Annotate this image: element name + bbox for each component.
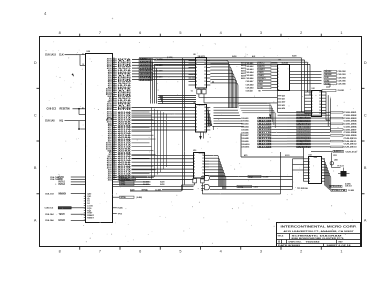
- svg-text:CU8-4B3: CU8-4B3: [241, 123, 249, 126]
- svg-text:CU8-4B6: CU8-4B6: [241, 131, 249, 134]
- svg-text:8: 8: [113, 122, 114, 124]
- svg-text:8: 8: [196, 81, 197, 83]
- svg-text:IORC/: IORC/: [258, 72, 264, 74]
- svg-text:INTA2: INTA2: [59, 183, 66, 186]
- svg-text:CU8-4B2: CU8-4B2: [241, 120, 249, 123]
- svg-text:RESET: RESET: [87, 217, 94, 219]
- driver U33 pins: [304, 158, 326, 182]
- svg-text:DATE 8/30/83: DATE 8/30/83: [278, 244, 301, 247]
- svg-text:13: 13: [113, 132, 115, 134]
- svg-text:B: B: [278, 241, 280, 244]
- cpu U30 left pin stubs lower: [84, 194, 86, 220]
- svg-text:12: 12: [202, 172, 204, 174]
- latch U9 74LS373 body: [193, 102, 206, 132]
- right column lower refs and signals: [241, 117, 287, 149]
- svg-text:9: 9: [113, 97, 114, 99]
- svg-text:DRQ0: DRQ0: [297, 112, 310, 114]
- svg-text:CR1: CR1: [333, 155, 337, 157]
- svg-text:CU8-1A2: CU8-1A2: [45, 213, 55, 216]
- svg-text:16: 16: [319, 98, 321, 100]
- svg-text:AP0: AP0: [244, 154, 247, 157]
- latch U9 pins: [196, 107, 210, 131]
- bottom label boxes: [237, 175, 268, 188]
- svg-text:B: B: [364, 166, 367, 170]
- svg-text:RESET86: RESET86: [60, 109, 71, 111]
- svg-text:32: 32: [113, 169, 115, 171]
- svg-text:AD4B: AD4B: [258, 146, 273, 149]
- svg-text:3: 3: [260, 250, 262, 254]
- svg-text:29: 29: [113, 60, 115, 62]
- U33 left feed vertical: [303, 148, 305, 182]
- svg-text:26: 26: [113, 65, 115, 67]
- latch U8 pins: [189, 60, 211, 86]
- svg-text:9: 9: [113, 124, 114, 126]
- transceiver U10 output bundle: [209, 155, 226, 189]
- svg-text:D: D: [364, 61, 367, 65]
- svg-text:33: 33: [113, 171, 115, 173]
- svg-text:74LS245: 74LS245: [198, 151, 205, 154]
- svg-text:7: 7: [196, 123, 197, 125]
- svg-text:9: 9: [196, 130, 197, 132]
- svg-text:CU8-4B9: CU8-4B9: [241, 140, 249, 143]
- svg-text:CU8-4A4: CU8-4A4: [246, 71, 255, 74]
- svg-text:12: 12: [204, 85, 206, 87]
- svg-text:CU8-4A3: CU8-4A3: [246, 68, 254, 71]
- title block outline: [277, 223, 361, 247]
- buffer gates below U8: [191, 81, 214, 103]
- svg-text:22: 22: [113, 73, 115, 75]
- svg-text:INTR(A): INTR(A): [142, 188, 149, 191]
- U33 output curve bundle: [322, 159, 331, 191]
- svg-text:MRDC: MRDC: [140, 59, 153, 61]
- cpu U30 8086 body: [86, 51, 113, 223]
- svg-text:18: 18: [319, 92, 321, 94]
- grid ticks top edge: [80, 34, 322, 37]
- vertical bus left of latches: [151, 60, 157, 104]
- svg-text:3: 3: [260, 31, 262, 35]
- svg-text:3: 3: [312, 95, 313, 97]
- buffer U32 pins: [305, 92, 327, 115]
- svg-text:INTA/: INTA/: [258, 80, 263, 83]
- grid row letters right: [364, 61, 367, 223]
- svg-text:MEMW/: MEMW/: [325, 74, 332, 76]
- svg-text:INTERCONTINENTAL MICRO CORP.: INTERCONTINENTAL MICRO CORP.: [281, 225, 357, 229]
- wires below U10: [130, 183, 281, 194]
- svg-text:2: 2: [196, 107, 197, 109]
- svg-text:18: 18: [202, 155, 204, 157]
- svg-text:SCHEMATIC DIAGRAM: SCHEMATIC DIAGRAM: [292, 234, 342, 237]
- t2 rows below bus: [158, 96, 196, 104]
- svg-text:U32: U32: [312, 88, 315, 90]
- svg-text:TP1 RN103A: TP1 RN103A: [297, 187, 308, 190]
- svg-text:4: 4: [220, 250, 222, 254]
- cpu U30 right pin labels lower: [118, 111, 133, 182]
- svg-text:25: 25: [113, 155, 115, 157]
- svg-text:21: 21: [82, 108, 84, 110]
- svg-text:IOWC/: IOWC/: [258, 75, 264, 77]
- u9 right bundle verticals: [208, 108, 213, 130]
- svg-text:REV: REV: [339, 241, 344, 243]
- svg-text:3: 3: [196, 110, 197, 112]
- svg-text:INTRA: INTRA: [238, 185, 244, 188]
- svg-text:CU8-1B6: CU8-1B6: [338, 83, 346, 85]
- svg-text:15: 15: [113, 136, 115, 138]
- svg-text:P0 10-10: P0 10-10: [338, 165, 344, 167]
- svg-text:MN/MX: MN/MX: [59, 193, 67, 195]
- svg-text:INTA: INTA: [140, 75, 153, 78]
- svg-text:CU8-4A9: CU8-4A9: [246, 86, 254, 89]
- svg-text:U9: U9: [193, 102, 195, 104]
- buffer boxes below U10: [193, 178, 204, 183]
- svg-text:6: 6: [139, 31, 141, 35]
- svg-text:CU8-4B5: CU8-4B5: [241, 128, 249, 131]
- buffer U32 74LS244 body: [312, 88, 322, 117]
- svg-text:CU8-5A8: CU8-5A8: [246, 89, 253, 92]
- svg-text:D: D: [34, 61, 37, 65]
- svg-text:19: 19: [113, 78, 115, 80]
- svg-text:29: 29: [113, 163, 115, 165]
- svg-text:19: 19: [113, 144, 115, 146]
- svg-text:IRQ3: IRQ3: [297, 132, 310, 134]
- svg-text:U33: U33: [309, 154, 312, 156]
- svg-text:CU8-1C5: CU8-1C5: [45, 208, 55, 210]
- svg-text:16: 16: [204, 71, 206, 73]
- svg-text:IRQ2: IRQ2: [297, 129, 310, 131]
- cpu U30 right pin labels upper: [118, 58, 134, 111]
- driver U33 body: [309, 154, 322, 183]
- grid ticks left edge: [37, 88, 40, 194]
- svg-text:TP10: TP10: [118, 213, 122, 215]
- svg-text:1: 1: [340, 250, 342, 254]
- svg-text:13: 13: [319, 107, 321, 109]
- svg-text:8-5C8: 8-5C8: [285, 155, 289, 157]
- dark signal row left: [45, 207, 86, 210]
- svg-text:74LS244: 74LS244: [281, 61, 288, 64]
- svg-text:CU8-1A8: CU8-1A8: [45, 120, 55, 123]
- svg-text:CU8-2C2: CU8-2C2: [47, 109, 57, 111]
- led indicator: [330, 153, 340, 168]
- svg-text:INTA/: INTA/: [325, 82, 330, 85]
- svg-text:LED: LED: [334, 160, 338, 162]
- svg-text:28: 28: [113, 161, 115, 163]
- title block date row: [278, 244, 352, 248]
- svg-text:31: 31: [113, 167, 115, 169]
- svg-text:18: 18: [204, 110, 206, 112]
- svg-text:27: 27: [113, 63, 115, 65]
- svg-text:MEMR/: MEMR/: [325, 71, 332, 73]
- svg-text:17: 17: [204, 67, 206, 69]
- svg-text:MWTC/: MWTC/: [258, 66, 265, 68]
- svg-text:8: 8: [278, 83, 279, 85]
- transceiver input rows T4: [132, 155, 194, 179]
- svg-text:AB9: AB9: [241, 77, 245, 80]
- svg-text:AD3B: AD3B: [258, 143, 273, 146]
- svg-text:DRQ1: DRQ1: [297, 115, 310, 117]
- cpu fringe extension wires: [132, 112, 156, 178]
- grid column numbers top: [59, 31, 343, 35]
- svg-text:CU8-1B5: CU8-1B5: [338, 80, 347, 82]
- svg-text:CU8-2B1: CU8-2B1: [344, 112, 357, 114]
- right column upper refs and signals: [246, 62, 278, 90]
- svg-text:IORC: IORC: [140, 68, 153, 70]
- svg-text:CU8-4B4: CU8-4B4: [241, 126, 249, 129]
- latch2 input rows T3: [132, 108, 196, 130]
- svg-text:15: 15: [204, 74, 206, 76]
- svg-text:IOWC: IOWC: [140, 71, 153, 73]
- svg-text:3: 3: [113, 108, 114, 110]
- svg-text:12: 12: [113, 130, 115, 132]
- svg-text:2: 2: [278, 65, 279, 67]
- svg-text:INTRA: INTRA: [121, 196, 127, 199]
- svg-text:AD2B: AD2B: [258, 117, 273, 120]
- diode CR1 body: [338, 165, 350, 176]
- svg-text:23: 23: [113, 71, 115, 73]
- row INTA2 out: [113, 183, 165, 186]
- svg-text:CU8-2C4: CU8-2C4: [346, 150, 357, 153]
- svg-text:13: 13: [204, 126, 206, 128]
- title block drawing number row: [278, 240, 343, 244]
- svg-text:5: 5: [312, 101, 313, 103]
- svg-text:18: 18: [113, 80, 115, 82]
- svg-text:8: 8: [312, 110, 313, 112]
- top bus ref labels: [232, 55, 296, 58]
- svg-text:SHEET 6 OF 18: SHEET 6 OF 18: [327, 245, 352, 247]
- svg-text:31: 31: [82, 53, 84, 55]
- test input row: [45, 213, 86, 216]
- svg-text:5: 5: [179, 250, 181, 254]
- svg-text:5: 5: [179, 31, 181, 35]
- svg-text:DACK0/: DACK0/: [297, 117, 310, 120]
- svg-text:CLK: CLK: [59, 55, 64, 57]
- svg-text:7: 7: [312, 107, 313, 109]
- svg-text:CU8-4A1: CU8-4A1: [246, 62, 254, 65]
- svg-text:CU8-2B12: CU8-2B12: [344, 144, 357, 146]
- resistor network label: [297, 187, 308, 190]
- svg-text:CU8-2B11: CU8-2B11: [344, 141, 357, 143]
- svg-text:A: A: [364, 219, 367, 223]
- svg-text:CU8-2B5: CU8-2B5: [344, 124, 357, 126]
- svg-text:5: 5: [196, 117, 197, 119]
- svg-text:CU8-4B1: CU8-4B1: [241, 117, 249, 120]
- svg-text:CU8-1B3: CU8-1B3: [338, 74, 346, 76]
- interrupt row IRQA: [113, 176, 154, 179]
- svg-text:17: 17: [204, 114, 206, 116]
- svg-text:9: 9: [278, 86, 279, 88]
- svg-text:27: 27: [113, 159, 115, 161]
- svg-text:21: 21: [113, 75, 115, 77]
- svg-text:15: 15: [113, 86, 115, 88]
- svg-text:2: 2: [300, 31, 302, 35]
- svg-text:AD0B: AD0B: [258, 134, 273, 137]
- svg-text:25: 25: [113, 67, 115, 69]
- svg-text:MRDC/: MRDC/: [258, 63, 265, 65]
- buffer U31 pins: [278, 65, 280, 92]
- svg-text:5: 5: [278, 74, 279, 76]
- buffer U31 74LS244 body: [278, 60, 290, 91]
- vertical under U31: [278, 91, 286, 113]
- wire row from gates to right: [199, 97, 277, 103]
- svg-text:CU8-4B10: CU8-4B10: [241, 143, 250, 146]
- svg-text:12: 12: [204, 130, 206, 132]
- row INTRA box: [113, 196, 143, 199]
- svg-text:CU8-4A5: CU8-4A5: [246, 74, 254, 77]
- svg-text:5: 5: [113, 117, 114, 119]
- svg-text:CU8-2B2: CU8-2B2: [344, 115, 357, 117]
- svg-text:7: 7: [99, 250, 101, 254]
- svg-text:3: 3: [278, 68, 279, 70]
- svg-text:18: 18: [113, 142, 115, 144]
- svg-text:11: 11: [113, 128, 115, 130]
- svg-text:CU8-2B13: CU8-2B13: [344, 147, 357, 149]
- svg-text:20: 20: [113, 77, 115, 79]
- svg-text:9: 9: [196, 85, 197, 87]
- svg-text:22: 22: [113, 149, 115, 151]
- U31 output rows with labels: [289, 70, 346, 85]
- title block title row: [278, 234, 345, 241]
- svg-text:8: 8: [59, 250, 61, 254]
- grid ticks right edge: [362, 88, 365, 194]
- cpu U30 right pins upper section: [106, 58, 117, 111]
- svg-text:HQ: HQ: [60, 121, 64, 123]
- svg-text:DACK1/: DACK1/: [297, 143, 310, 146]
- svg-text:16: 16: [113, 84, 115, 86]
- svg-text:7: 7: [113, 121, 114, 123]
- svg-text:TEST/: TEST/: [59, 214, 66, 216]
- cpu U30 right pins lower section: [106, 111, 117, 182]
- svg-text:6: 6: [312, 104, 313, 106]
- u9 output rows: [214, 108, 244, 127]
- svg-text:16: 16: [113, 138, 115, 140]
- svg-text:CU8-5B1: CU8-5B1: [338, 90, 345, 92]
- svg-text:15: 15: [202, 164, 204, 166]
- svg-text:IOW/: IOW/: [325, 80, 330, 82]
- svg-text:CU8-4B11: CU8-4B11: [241, 146, 249, 149]
- svg-text:2: 2: [113, 111, 114, 113]
- svg-text:30: 30: [113, 165, 115, 167]
- svg-text:CU8-5C9: CU8-5C9: [345, 186, 352, 188]
- bottom long wires to right: [210, 177, 293, 190]
- svg-text:8: 8: [113, 99, 114, 101]
- svg-text:26: 26: [113, 157, 115, 159]
- address bus curve bundle: [210, 61, 238, 109]
- svg-text:15: 15: [204, 120, 206, 122]
- vertical bus pair at 183: [183, 58, 185, 191]
- svg-text:AIOWC: AIOWC: [140, 73, 153, 76]
- svg-text:4015 LEAVERTON CT., ANAHEIM,: 4015 LEAVERTON CT., ANAHEIM, CA 92807: [284, 230, 355, 233]
- top bus wires to right side: [139, 58, 310, 114]
- svg-text:5: 5: [196, 71, 197, 73]
- hd row below column: [246, 89, 345, 92]
- svg-text:6: 6: [196, 74, 197, 76]
- svg-text:CU8-4B8: CU8-4B8: [241, 137, 249, 140]
- svg-text:CU8-2B10: CU8-2B10: [344, 138, 357, 140]
- svg-text:6: 6: [139, 250, 141, 254]
- svg-text:8: 8: [196, 126, 197, 128]
- svg-text:CU8-4A6: CU8-4A6: [246, 77, 254, 80]
- svg-text:20: 20: [113, 146, 115, 148]
- svg-text:AMEN: AMEN: [334, 150, 344, 153]
- transceiver U10 pins: [194, 155, 209, 177]
- svg-text:28: 28: [113, 62, 115, 64]
- title block company name: [281, 225, 357, 233]
- svg-text:HOLD: HOLD: [59, 220, 66, 222]
- svg-text:CU8-2B6: CU8-2B6: [344, 126, 357, 128]
- clk input row CU8-1A15: [45, 53, 86, 66]
- svg-text:13: 13: [204, 81, 206, 83]
- svg-text:MWTC: MWTC: [140, 62, 153, 64]
- svg-text:DRQ1: DRQ1: [297, 138, 310, 140]
- svg-text:CU-4D8: CU-4D8: [156, 75, 164, 78]
- hold lower row: [45, 219, 86, 222]
- svg-text:6: 6: [278, 77, 279, 79]
- svg-text:CU-4D8: CU-4D8: [156, 70, 164, 73]
- svg-text:23: 23: [113, 151, 115, 153]
- band feed wire lower: [241, 134, 304, 158]
- svg-text:PRI07A: PRI07A: [332, 189, 348, 192]
- svg-text:7: 7: [196, 78, 197, 80]
- grid ticks bottom edge: [80, 247, 322, 250]
- extra band row AMEN: [311, 150, 357, 153]
- svg-text:8: 8: [59, 31, 61, 35]
- svg-text:2: 2: [300, 250, 302, 254]
- svg-text:DEN: DEN: [258, 84, 263, 86]
- svg-text:CU8-1C8: CU8-1C8: [45, 193, 55, 195]
- svg-text:CU8-2B7: CU8-2B7: [344, 129, 357, 131]
- svg-text:AD4B: AD4B: [258, 122, 273, 125]
- right corner label rows: [329, 182, 354, 192]
- svg-text:AD5B: AD5B: [258, 125, 273, 128]
- latch U8 74LS373 body: [193, 54, 206, 88]
- svg-text:AD6B: AD6B: [258, 128, 273, 131]
- grid column numbers bottom: [59, 250, 343, 254]
- row stub 1: [113, 207, 124, 210]
- svg-text:12: 12: [113, 92, 115, 94]
- grid row letters left: [34, 61, 37, 223]
- svg-text:CU8-2B9: CU8-2B9: [344, 135, 357, 137]
- svg-text:CU8-1B2: CU8-1B2: [338, 71, 346, 73]
- svg-text:B: B: [34, 166, 37, 170]
- svg-text:CU8-1A15: CU8-1A15: [45, 54, 57, 57]
- svg-text:DRQ0: DRQ0: [297, 135, 310, 137]
- svg-text:CU8-4A7: CU8-4A7: [246, 80, 254, 83]
- address bus verticals into lower band: [238, 103, 275, 128]
- svg-text:74LS373: 74LS373: [198, 104, 205, 107]
- svg-text:DACK1/: DACK1/: [297, 120, 310, 123]
- bottom wires risers: [281, 152, 304, 194]
- svg-text:21: 21: [113, 148, 115, 150]
- row to gates: [113, 186, 194, 188]
- gates left of bottom band: [201, 175, 210, 190]
- svg-text:11: 11: [113, 93, 115, 95]
- svg-text:19: 19: [204, 107, 206, 109]
- svg-text:16: 16: [204, 117, 206, 119]
- svg-text:DT/R: DT/R: [258, 87, 263, 89]
- svg-text:AD1B: AD1B: [258, 137, 273, 140]
- svg-text:AD3B: AD3B: [258, 120, 273, 123]
- svg-text:CU8-4A8: CU8-4A8: [246, 83, 254, 86]
- svg-text:7500382: 7500382: [306, 241, 321, 243]
- svg-text:35: 35: [113, 175, 115, 177]
- svg-text:12: 12: [319, 110, 321, 112]
- row INTA1 out: [113, 181, 165, 184]
- svg-text:6: 6: [113, 119, 114, 121]
- svg-text:17: 17: [202, 158, 204, 160]
- svg-text:TITLE:: TITLE:: [278, 235, 285, 237]
- svg-text:IRQ7: IRQ7: [249, 176, 253, 178]
- row refs INTR: [130, 188, 194, 191]
- svg-text:7: 7: [99, 31, 101, 35]
- svg-text:CU8-1B4: CU8-1B4: [338, 76, 347, 79]
